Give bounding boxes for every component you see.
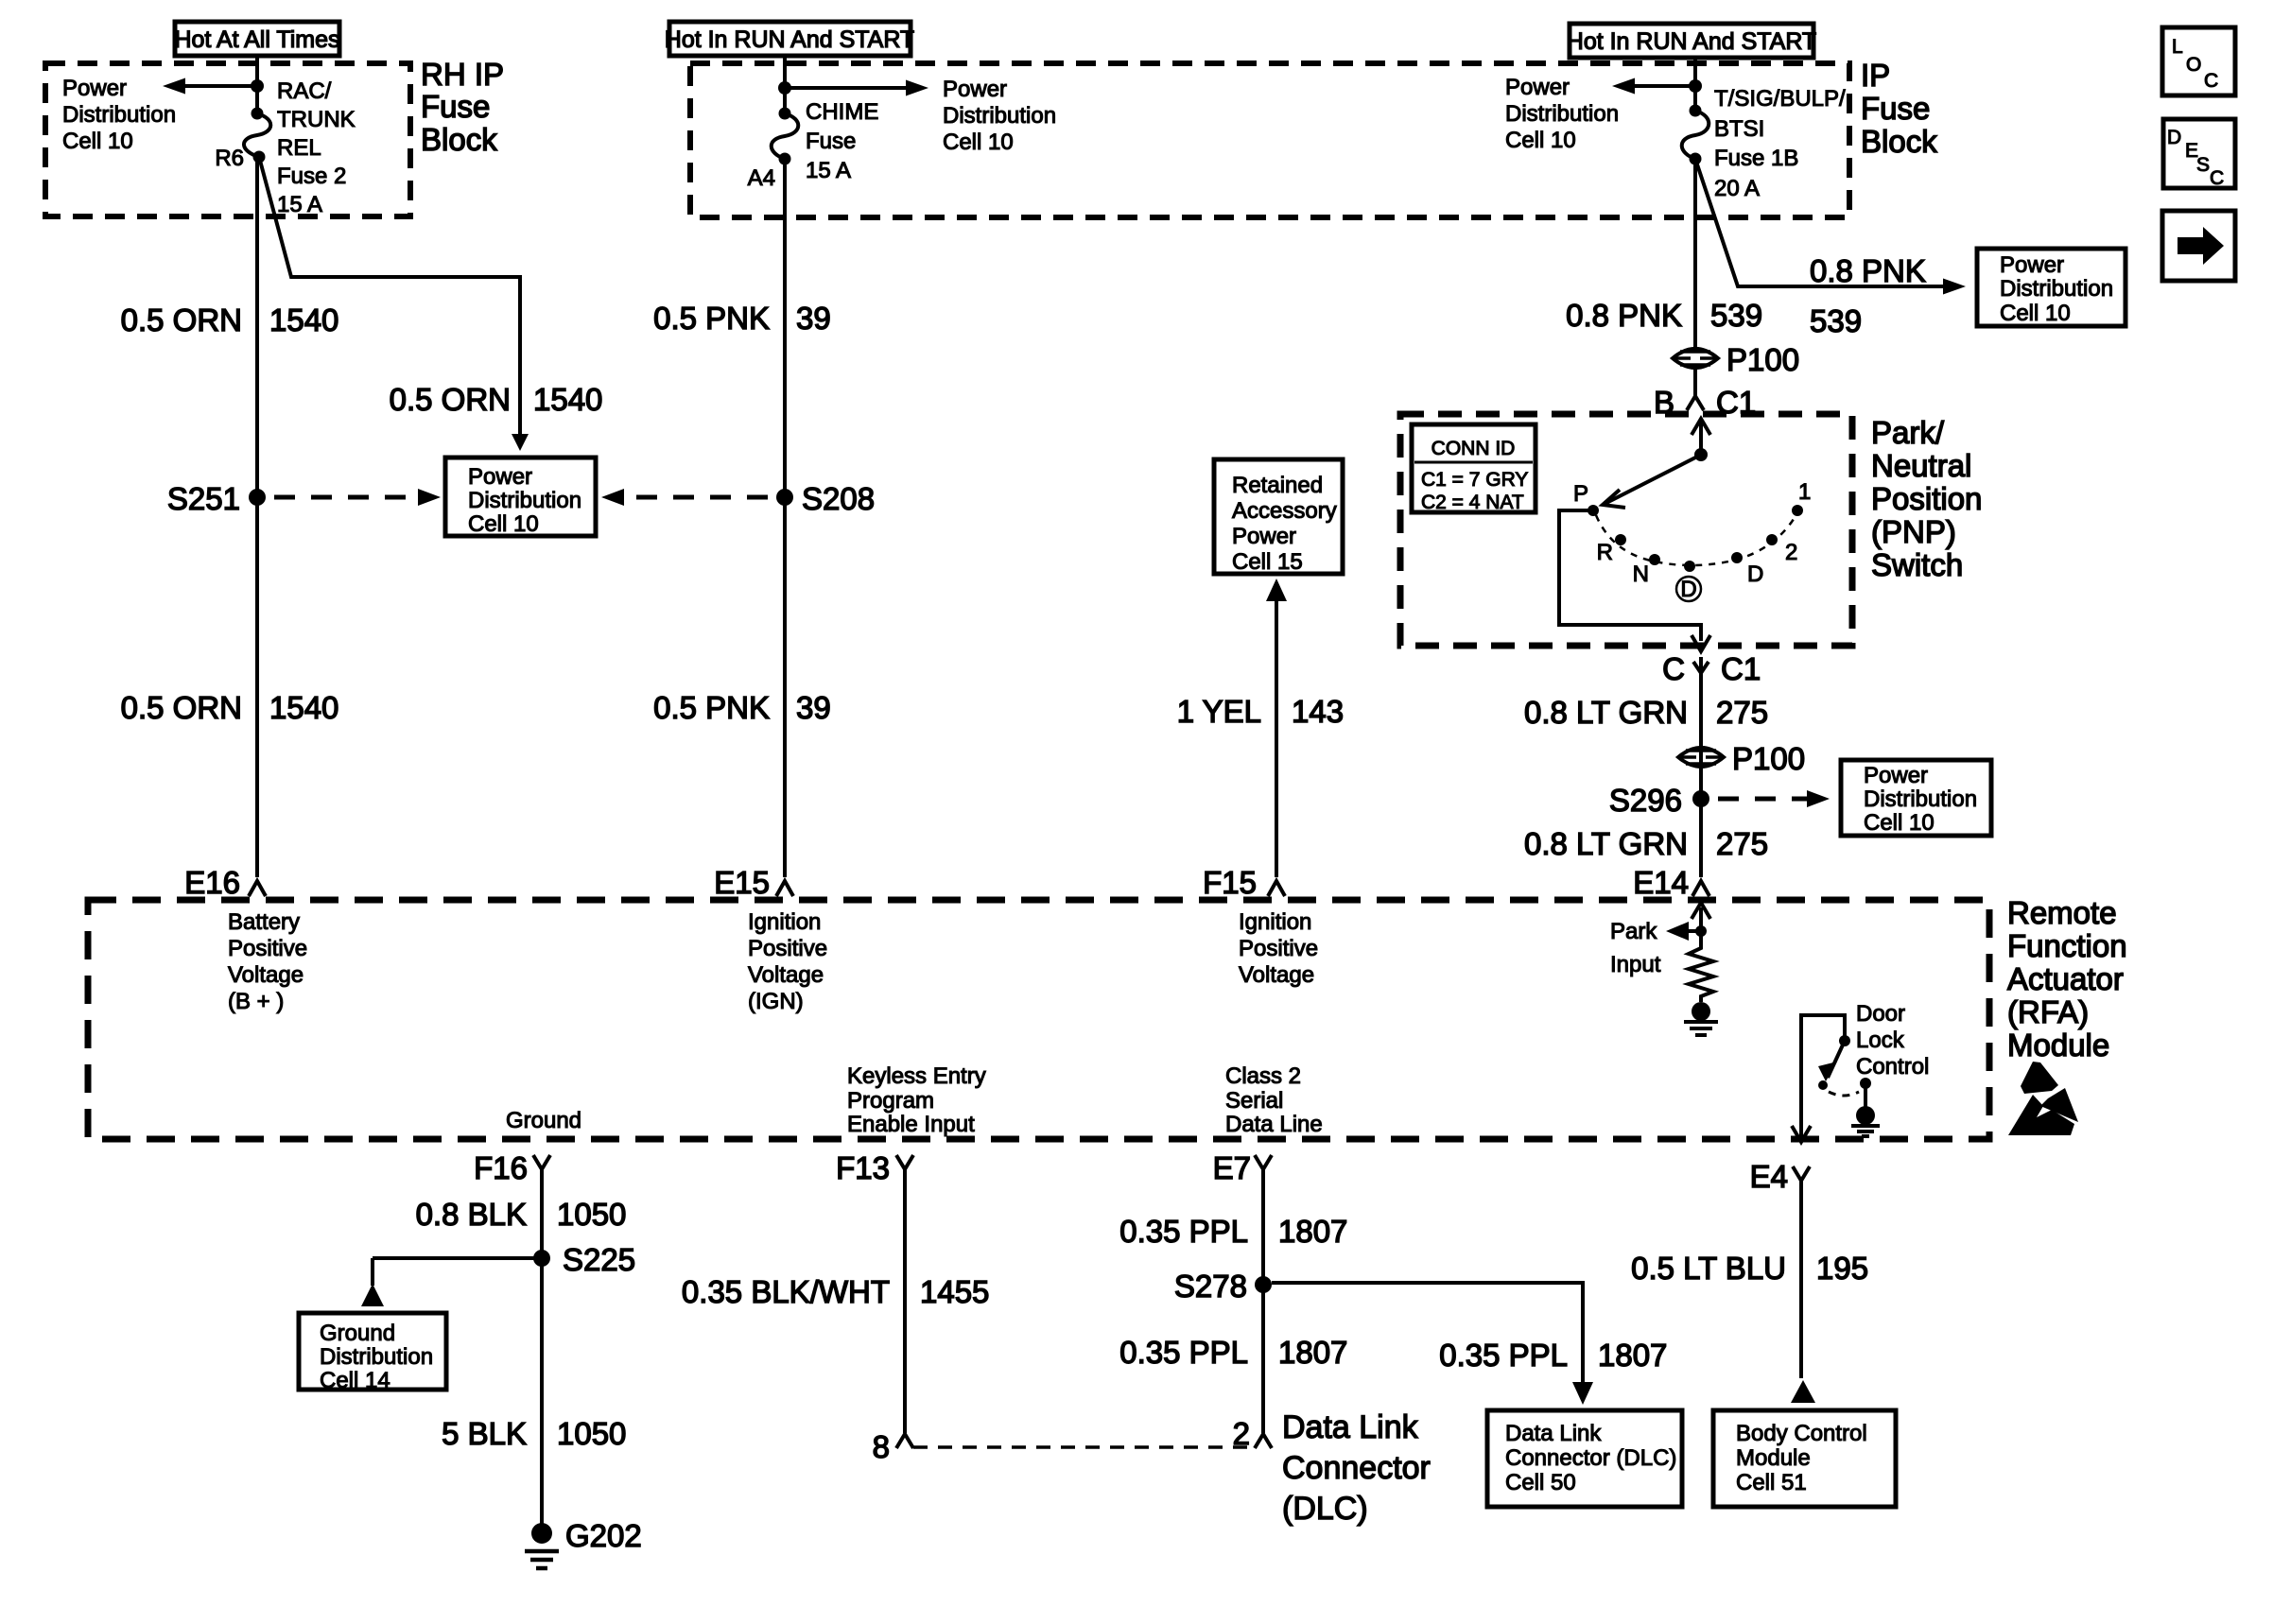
svg-text:Park/: Park/ (1871, 415, 1945, 450)
svg-text:39: 39 (796, 690, 831, 725)
svg-text:Ground: Ground (506, 1108, 581, 1133)
svg-text:Distribution: Distribution (320, 1344, 433, 1370)
svg-text:Accessory: Accessory (1232, 498, 1337, 524)
svg-text:Door: Door (1856, 1001, 1905, 1027)
svg-text:E16: E16 (184, 865, 240, 900)
svg-text:P100: P100 (1726, 342, 1799, 377)
svg-text:S278: S278 (1174, 1269, 1247, 1304)
wire label 0.5 ORN 1540 (branch) (390, 382, 603, 417)
svg-text:Program: Program (847, 1088, 934, 1114)
node S225 (533, 1242, 635, 1277)
svg-text:Module: Module (1736, 1445, 1811, 1471)
connector F15 (1203, 865, 1285, 900)
wire left column E16 (255, 157, 259, 877)
contact D circled (1676, 561, 1701, 602)
svg-text:Positive: Positive (228, 936, 307, 961)
branch wire to Power Distribution Cell 10 (top right) (1695, 159, 1966, 295)
pin 2 connector (1233, 1416, 1272, 1451)
svg-text:0.5 ORN: 0.5 ORN (390, 382, 511, 417)
text Ignition Positive Voltage (IGN) (748, 909, 827, 1014)
wire label 0.8 PNK 539 (vertical wire) (1566, 298, 1762, 333)
svg-text:P100: P100 (1732, 741, 1805, 776)
svg-text:39: 39 (796, 301, 831, 336)
svg-text:20 A: 20 A (1714, 176, 1760, 201)
contact R (1597, 534, 1626, 565)
fuse R6 RAC/TRUNK REL Fuse 2 15 A (215, 78, 355, 217)
fuse A4 CHIME Fuse 15 A (748, 99, 879, 191)
svg-text:Remote: Remote (2007, 895, 2117, 930)
svg-text:Ground: Ground (320, 1321, 395, 1346)
svg-text:Block: Block (1861, 124, 1937, 159)
fuse T/SIG/BULP/ BTSI Fuse 1B 20 A (1682, 86, 1846, 201)
svg-text:D: D (1747, 561, 1763, 587)
svg-text:C1 = 7 GRY: C1 = 7 GRY (1421, 469, 1528, 491)
label RH IP Fuse Block (421, 57, 504, 157)
svg-text:S225: S225 (563, 1242, 635, 1277)
ground G202 (525, 1518, 642, 1568)
svg-text:Input: Input (1610, 952, 1661, 977)
header box Hot In RUN And START (right) (1567, 24, 1816, 58)
svg-text:Serial: Serial (1225, 1088, 1283, 1114)
svg-text:Hot At All Times: Hot At All Times (174, 26, 339, 53)
svg-text:Cell 10: Cell 10 (1505, 128, 1576, 153)
dashed data link wire 8 to 2 (913, 1445, 1250, 1449)
svg-text:Ignition: Ignition (1239, 909, 1311, 935)
svg-text:R: R (1597, 540, 1613, 565)
contact 2 (1766, 534, 1797, 565)
svg-text:(B + ): (B + ) (228, 989, 284, 1014)
svg-text:0.5 ORN: 0.5 ORN (121, 690, 242, 725)
box Ground Distribution Cell 14 (299, 1313, 446, 1393)
svg-text:REL: REL (277, 135, 321, 161)
text Power Distribution Cell 10 (left fuse block) (62, 76, 176, 154)
reference box DESC (2163, 119, 2235, 189)
svg-text:0.5 LT BLU: 0.5 LT BLU (1631, 1251, 1786, 1286)
box Retained Accessory Power Cell 15 (1214, 459, 1343, 575)
svg-text:539: 539 (1810, 303, 1862, 338)
svg-text:(IGN): (IGN) (748, 989, 804, 1014)
svg-text:Positive: Positive (1239, 936, 1318, 961)
Remote Function Actuator module dashed box (88, 900, 1989, 1139)
svg-text:15 A: 15 A (277, 192, 322, 217)
svg-text:R6: R6 (215, 146, 244, 171)
connector E4 (1750, 1159, 1810, 1378)
wire label 1 YEL 143 (1177, 694, 1344, 729)
svg-text:Power: Power (62, 76, 127, 101)
park input arrow (1610, 919, 1701, 977)
box Power Distribution Cell 10 (right mid) (1841, 760, 1991, 836)
wire right column down to P100 (1693, 159, 1697, 349)
svg-text:5 BLK: 5 BLK (442, 1416, 527, 1451)
svg-text:Control: Control (1856, 1054, 1929, 1080)
svg-text:8: 8 (873, 1429, 890, 1464)
svg-text:IP: IP (1861, 58, 1890, 93)
svg-text:E4: E4 (1750, 1159, 1788, 1194)
svg-text:Distribution: Distribution (2000, 276, 2113, 302)
svg-text:0.8 PNK: 0.8 PNK (1566, 298, 1682, 333)
text Power Distribution Cell 10 (middle fuse block) (943, 77, 1056, 155)
text Battery Positive Voltage (B+) (228, 909, 307, 1014)
svg-text:C1: C1 (1721, 651, 1761, 686)
svg-text:275: 275 (1716, 826, 1768, 861)
svg-text:0.35 PPL: 0.35 PPL (1119, 1335, 1248, 1370)
svg-text:1807: 1807 (1278, 1335, 1347, 1370)
node S278 (1174, 1269, 1272, 1304)
svg-text:Cell 10: Cell 10 (943, 130, 1014, 155)
svg-text:(PNP): (PNP) (1871, 514, 1956, 549)
svg-text:Distribution: Distribution (943, 103, 1056, 129)
svg-text:Battery: Battery (228, 909, 300, 935)
text Power Distribution Cell 10 (right fuse block) (1505, 75, 1619, 153)
pin 8 connector (873, 1429, 913, 1464)
svg-text:Hot In RUN And START: Hot In RUN And START (665, 26, 914, 53)
box Power Distribution Cell 10 (center) (445, 458, 596, 537)
node S208 with dashed arrow (601, 481, 875, 516)
svg-text:Body Control: Body Control (1736, 1421, 1867, 1446)
connector B C1 (1654, 369, 1756, 420)
reference box arrow (2162, 211, 2235, 281)
park input wire with up arrow (1692, 903, 1710, 943)
svg-text:195: 195 (1816, 1251, 1868, 1286)
E4 exit arrow (1792, 1126, 1811, 1142)
svg-text:Hot In RUN And START: Hot In RUN And START (1567, 28, 1816, 55)
connector C C1 (1662, 651, 1761, 686)
svg-text:Neutral: Neutral (1871, 448, 1971, 483)
arrow to Power Distribution (middle) (778, 80, 928, 96)
svg-text:1540: 1540 (269, 690, 338, 725)
svg-text:D: D (1680, 577, 1696, 602)
wire from header into fuse block (right) (1693, 58, 1697, 111)
svg-text:Actuator: Actuator (2007, 961, 2124, 996)
contact D (1731, 552, 1763, 587)
connector E16 (184, 865, 266, 900)
arrow to Power Distribution (left) (163, 78, 264, 95)
svg-text:Cell 10: Cell 10 (1864, 810, 1935, 836)
text Door Lock Control (1856, 1001, 1929, 1080)
wire from Hot At All Times into fuse block (255, 56, 259, 113)
connector E14 (1633, 865, 1709, 900)
svg-text:BTSI: BTSI (1714, 116, 1764, 142)
svg-text:0.35 PPL: 0.35 PPL (1119, 1214, 1248, 1249)
svg-text:Power: Power (468, 464, 532, 490)
svg-text:1540: 1540 (269, 302, 338, 337)
label Park/Neutral Position (PNP) Switch (1871, 415, 1982, 582)
svg-text:(DLC): (DLC) (1282, 1491, 1368, 1527)
svg-text:2: 2 (1785, 540, 1797, 565)
svg-text:E15: E15 (714, 865, 770, 900)
svg-text:T/SIG/BULP/: T/SIG/BULP/ (1714, 86, 1846, 112)
wire label 0.35 BLK/WHT 1455 (682, 1274, 990, 1309)
svg-text:1540: 1540 (533, 382, 602, 417)
connector F16 (474, 1150, 550, 1525)
branch wire to Ground Distribution (361, 1258, 542, 1306)
connector E7 (1213, 1150, 1272, 1433)
wire from header into fuse block (middle) (783, 56, 787, 113)
svg-text:Lock: Lock (1856, 1028, 1905, 1053)
svg-text:Data Link: Data Link (1282, 1409, 1419, 1445)
box Body Control Module Cell 51 (1713, 1410, 1896, 1507)
wire label 0.5 PNK 39 (lower) (653, 690, 831, 725)
svg-text:TRUNK: TRUNK (277, 107, 356, 132)
svg-text:Cell 50: Cell 50 (1505, 1470, 1576, 1495)
svg-text:Fuse: Fuse (1861, 91, 1930, 126)
svg-text:Distribution: Distribution (468, 488, 581, 513)
svg-text:Park: Park (1610, 919, 1657, 944)
wire label 0.35 PPL 1807 (lower) (1119, 1335, 1347, 1370)
svg-text:(RFA): (RFA) (2007, 994, 2089, 1029)
svg-text:Power: Power (1505, 75, 1570, 100)
box Power Distribution Cell 10 (top right) (1977, 249, 2126, 326)
svg-text:F16: F16 (474, 1150, 528, 1185)
svg-text:Distribution: Distribution (1864, 786, 1977, 812)
wide dashed fuse block box (middle/right) (690, 63, 1849, 217)
svg-text:0.8 LT GRN: 0.8 LT GRN (1524, 695, 1688, 730)
svg-text:15 A: 15 A (806, 158, 851, 183)
CONN ID box (1412, 424, 1536, 513)
branch S278 to DLC cell 50 (1272, 1283, 1593, 1405)
svg-text:G202: G202 (565, 1518, 642, 1553)
svg-text:RAC/: RAC/ (277, 78, 332, 104)
svg-text:RH IP: RH IP (421, 57, 504, 92)
svg-text:C: C (2204, 70, 2218, 92)
wire label 0.8 LT GRN 275 (lower) (1524, 826, 1768, 861)
switch common wire with up arrow (1692, 419, 1710, 461)
svg-text:Ignition: Ignition (748, 909, 821, 935)
wire middle column E15 (783, 159, 787, 877)
svg-text:1807: 1807 (1598, 1338, 1667, 1373)
svg-text:Cell 51: Cell 51 (1736, 1470, 1807, 1495)
svg-text:Cell 14: Cell 14 (320, 1368, 390, 1393)
svg-text:Power: Power (2000, 252, 2064, 278)
svg-text:CONN ID: CONN ID (1431, 438, 1516, 459)
svg-text:143: 143 (1292, 694, 1344, 729)
connector F13 (836, 1150, 913, 1433)
svg-text:Module: Module (2007, 1028, 2109, 1063)
wire branch from fuse to Power Distribution box (259, 157, 529, 451)
inline connector P100 (lower) (1678, 741, 1805, 776)
svg-text:0.5 ORN: 0.5 ORN (121, 302, 242, 337)
svg-text:Cell 10: Cell 10 (468, 511, 539, 537)
svg-text:Connector (DLC): Connector (DLC) (1505, 1445, 1676, 1471)
text Keyless Entry Program Enable Input (847, 1063, 986, 1137)
node S296 with dashed arrow (1609, 783, 1830, 818)
svg-text:Position: Position (1871, 481, 1982, 516)
wire label 0.5 LT BLU 195 (1631, 1251, 1868, 1286)
PNP switch dashed box (1400, 414, 1852, 646)
text Class 2 Serial Data Line (1225, 1063, 1323, 1137)
svg-text:0.35 BLK/WHT: 0.35 BLK/WHT (682, 1274, 890, 1309)
svg-text:1807: 1807 (1278, 1214, 1347, 1249)
svg-text:Block: Block (421, 122, 497, 157)
svg-text:0.35 PPL: 0.35 PPL (1439, 1338, 1568, 1373)
svg-text:Fuse: Fuse (421, 89, 490, 124)
svg-text:Keyless Entry: Keyless Entry (847, 1063, 986, 1089)
label IP Fuse Block (1861, 58, 1937, 159)
svg-text:1455: 1455 (920, 1274, 989, 1309)
arrow to Power Distribution (right) (1612, 78, 1702, 95)
label Remote Function Actuator (RFA) Module (2007, 895, 2127, 1063)
svg-text:P: P (1573, 481, 1588, 507)
svg-text:C: C (1662, 651, 1685, 686)
svg-text:2: 2 (1233, 1416, 1250, 1451)
svg-text:E14: E14 (1633, 865, 1689, 900)
svg-text:S208: S208 (802, 481, 875, 516)
wire label 0.8 BLK 1050 (416, 1197, 627, 1232)
svg-text:Data Line: Data Line (1225, 1112, 1323, 1137)
wire label 0.35 PPL 1807 (upper) (1119, 1214, 1347, 1249)
text Data Link Connector (DLC) (1282, 1409, 1431, 1527)
text Ignition Positive Voltage (F15) (1239, 909, 1318, 988)
dashed travel arc (1596, 515, 1796, 565)
door lock control switch (1801, 1015, 1880, 1139)
svg-text:1050: 1050 (557, 1416, 626, 1451)
svg-text:C: C (2210, 167, 2224, 189)
svg-text:F13: F13 (836, 1150, 890, 1185)
reference box LOC (2162, 27, 2235, 95)
triangle into Body Control Module (1791, 1380, 1815, 1403)
svg-text:Data Link: Data Link (1505, 1421, 1602, 1446)
svg-text:Distribution: Distribution (62, 102, 176, 128)
ground (park input) (1684, 1002, 1718, 1035)
wire label 0.5 ORN 1540 (lower left) (121, 690, 339, 725)
ESD sensitive symbol (2008, 1062, 2078, 1135)
svg-text:Fuse: Fuse (806, 129, 856, 154)
svg-text:Fuse 1B: Fuse 1B (1714, 146, 1798, 171)
wire label 0.5 ORN 1540 (upper) (121, 302, 339, 337)
svg-text:Cell 15: Cell 15 (1232, 549, 1303, 575)
svg-text:F15: F15 (1203, 865, 1257, 900)
svg-text:1050: 1050 (557, 1197, 626, 1232)
wire from C1 down to E14 (1699, 673, 1703, 877)
switch moving arm toward P (1603, 455, 1701, 508)
svg-text:1 YEL: 1 YEL (1177, 694, 1261, 729)
svg-text:E7: E7 (1213, 1150, 1251, 1185)
svg-text:Function: Function (2007, 928, 2127, 963)
svg-text:Positive: Positive (748, 936, 827, 961)
svg-text:Power: Power (1232, 524, 1296, 549)
svg-text:Retained: Retained (1232, 473, 1323, 498)
svg-text:D: D (2167, 127, 2181, 148)
wire from P contact to C output (1559, 510, 1710, 651)
svg-text:CHIME: CHIME (806, 99, 878, 125)
svg-text:O: O (2186, 54, 2201, 76)
svg-text:539: 539 (1710, 298, 1762, 333)
contact 1 (1792, 479, 1811, 516)
svg-text:L: L (2172, 36, 2183, 58)
svg-text:S: S (2196, 154, 2210, 176)
header box Hot At All Times (174, 22, 339, 56)
svg-text:Fuse 2: Fuse 2 (277, 164, 346, 189)
resistor (park input pull) (1689, 943, 1713, 1002)
svg-text:0.8 LT GRN: 0.8 LT GRN (1524, 826, 1688, 861)
wire label 0.5 PNK 39 (upper) (653, 301, 831, 336)
node S251 with dashed arrow (167, 481, 441, 516)
svg-text:Power: Power (943, 77, 1007, 102)
svg-text:Voltage: Voltage (1239, 962, 1314, 988)
svg-text:Voltage: Voltage (228, 962, 304, 988)
box Data Link Connector (DLC) Cell 50 (1487, 1410, 1682, 1507)
svg-text:N: N (1633, 561, 1649, 587)
svg-text:Enable Input: Enable Input (847, 1112, 975, 1137)
header box Hot In RUN And START (middle) (665, 22, 914, 56)
svg-text:Power: Power (1864, 763, 1928, 788)
svg-text:Cell 10: Cell 10 (2000, 301, 2071, 326)
svg-text:1: 1 (1798, 479, 1811, 505)
contact N (1633, 554, 1660, 587)
svg-text:0.8 BLK: 0.8 BLK (416, 1197, 527, 1232)
svg-text:Class 2: Class 2 (1225, 1063, 1301, 1089)
wire label 0.8 PNK 539 (branch, two lines) (1810, 253, 1926, 338)
svg-text:Voltage: Voltage (748, 962, 824, 988)
svg-text:A4: A4 (748, 165, 775, 191)
svg-text:Switch: Switch (1871, 547, 1963, 582)
RH IP fuse block dashed box (45, 63, 410, 216)
inline connector P100 (upper) (1673, 342, 1799, 377)
connector E15 (714, 865, 793, 900)
contact P (1573, 481, 1599, 516)
svg-text:Distribution: Distribution (1505, 101, 1619, 127)
svg-text:Cell 10: Cell 10 (62, 129, 133, 154)
svg-text:0.5 PNK: 0.5 PNK (653, 690, 770, 725)
svg-text:S251: S251 (167, 481, 240, 516)
wire label 0.35 PPL 1807 (branch) (1439, 1338, 1667, 1373)
wire label 0.8 LT GRN 275 (upper) (1524, 695, 1768, 730)
svg-text:275: 275 (1716, 695, 1768, 730)
svg-text:0.5 PNK: 0.5 PNK (653, 301, 770, 336)
svg-text:S296: S296 (1609, 783, 1682, 818)
svg-text:0.8 PNK: 0.8 PNK (1810, 253, 1926, 288)
svg-text:C2 = 4 NAT: C2 = 4 NAT (1421, 492, 1524, 513)
svg-text:Connector: Connector (1282, 1450, 1431, 1486)
wire F15 with up arrow to box (1266, 579, 1287, 877)
wire label 5 BLK 1050 (442, 1416, 626, 1451)
